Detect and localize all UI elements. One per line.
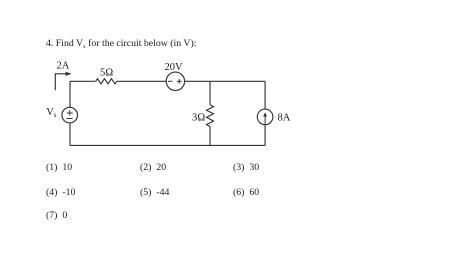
- svg-text:3Ω: 3Ω: [192, 113, 205, 124]
- svg-text:20V: 20V: [165, 62, 184, 73]
- answer option (3) 30: [233, 163, 259, 173]
- wire: resistor 3ohm down to bottom wire: [209, 126, 211, 145]
- answer option (2) 20: [140, 163, 166, 173]
- voltage source Vs: [62, 107, 78, 123]
- wire: top-left corner to resistor 5ohm: [70, 80, 96, 82]
- answer option (5) -44: [140, 188, 169, 198]
- wire: 20V source to node A (3ohm junction): [185, 80, 210, 82]
- label 3ohm: [192, 113, 205, 124]
- wire: node A down to resistor 3ohm: [209, 81, 211, 105]
- answer option (4) -10: [46, 188, 75, 198]
- answer option (6) 60: [233, 188, 259, 198]
- label 2A: [57, 61, 70, 72]
- svg-text:Vs: Vs: [46, 107, 57, 119]
- wire: top-right corner down to 8A source: [264, 81, 266, 109]
- answer option (1) 10: [46, 163, 72, 173]
- label Vs: [46, 107, 57, 119]
- current direction arrow 2A: [55, 72, 71, 91]
- wire: left vertical, top-left corner down to Vs source: [69, 81, 71, 107]
- resistor 5ohm: [96, 79, 117, 84]
- resistor 3ohm: [207, 105, 214, 127]
- svg-text:8A: 8A: [278, 113, 291, 124]
- voltage source 20V: [166, 72, 184, 90]
- svg-text:5Ω: 5Ω: [100, 67, 113, 78]
- wire: resistor 5ohm to 20V source: [117, 80, 167, 82]
- title: question text: [46, 39, 196, 50]
- answer option (7) 0: [46, 211, 67, 221]
- current source 8A: [257, 109, 273, 125]
- wire: bottom rail: [70, 144, 265, 146]
- wire: 8A source down to bottom-right corner: [264, 125, 266, 146]
- wire: Vs source down to bottom-left corner: [69, 123, 71, 145]
- svg-text:2A: 2A: [57, 61, 70, 72]
- label 8A: [278, 113, 291, 124]
- wire: node A to top-right corner: [210, 80, 265, 82]
- label 20V: [165, 62, 184, 73]
- label 5ohm: [100, 67, 113, 78]
